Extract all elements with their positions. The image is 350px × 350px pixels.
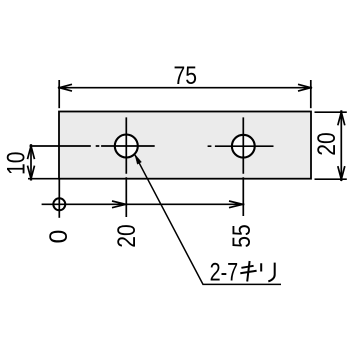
dim 20 extension line top [315, 111, 347, 113]
dim 10 dimension line [30, 146, 32, 179]
ordinate datum vertical line [58, 179, 60, 218]
centerline H2 vertical [242, 117, 244, 216]
svg-text:55: 55 [228, 224, 256, 248]
svg-text:75: 75 [174, 62, 198, 90]
dim 20 top arrow [338, 110, 345, 125]
note katakana RI [261, 263, 275, 282]
ordinate arrow at 20 [112, 201, 127, 208]
note katakana KI [240, 261, 256, 282]
plate (75x20 bar) [59, 112, 311, 179]
centerline H2 horizontal [208, 145, 274, 147]
hole H1 (left, dia 7) [115, 135, 138, 158]
svg-text:0: 0 [45, 230, 73, 244]
dim 20 dimension line [340, 112, 342, 179]
ordinate dimension line [42, 203, 244, 205]
dim 10 top arrow [28, 144, 35, 159]
dim 10 extension line bottom [28, 178, 59, 180]
svg-text:20: 20 [113, 224, 141, 248]
svg-text:10: 10 [3, 151, 31, 175]
ordinate arrow at 55 [229, 201, 244, 208]
dim 10 bottom arrow [28, 166, 35, 181]
hole H2 (right, dia 7) [232, 135, 255, 158]
dim 20 extension line bottom [315, 178, 347, 180]
dim 75 right arrow [298, 84, 312, 91]
centerline H1 vertical [125, 117, 127, 217]
dim 75 dimension line [59, 87, 311, 89]
leader arrow at hole H1 [135, 154, 142, 164]
leader line [135, 154, 281, 284]
ordinate datum circle [53, 198, 65, 210]
centerline H1 horizontal [30, 145, 155, 147]
dim 75 extension line left [58, 80, 60, 108]
dim 75 left arrow [58, 84, 72, 91]
dim 20 bottom arrow [338, 166, 345, 181]
svg-text:2-7: 2-7 [210, 259, 239, 287]
dim 75 extension line right [310, 80, 312, 108]
svg-text:20: 20 [313, 132, 341, 156]
